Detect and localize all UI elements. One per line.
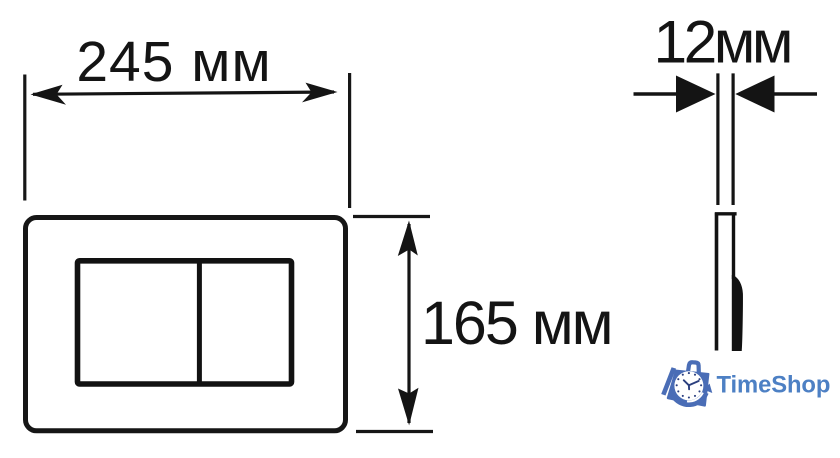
side profile: top edge <box>715 212 737 215</box>
logo: swoosh white gap ring <box>687 393 703 402</box>
dimension 245mm: left extension line <box>23 75 26 201</box>
logo: swoosh arrowhead <box>703 384 712 393</box>
dimension 12mm: left extension line <box>716 73 719 205</box>
logo: clock tick marks <box>676 372 702 399</box>
dimension 12mm: label text <box>654 8 790 76</box>
dimension 165mm: bottom arrowhead <box>398 388 419 426</box>
dimension 245mm: right arrowhead <box>302 83 338 103</box>
dimension 165mm: dimension line <box>407 224 410 423</box>
dimension 165mm: label text <box>421 289 612 357</box>
dimension 165mm: top arrowhead <box>398 221 418 257</box>
dimension 12mm: right leader line <box>771 92 817 95</box>
logo: clock hands <box>684 380 699 389</box>
dimension 245mm: label text <box>76 30 271 94</box>
svg-text:TimeShop: TimeShop <box>717 371 831 398</box>
dimension 12mm: left arrowhead <box>676 76 716 113</box>
logo: clock face <box>674 371 703 400</box>
front view: outer plate outline <box>26 218 346 431</box>
dimension 12mm: right extension line <box>731 73 734 205</box>
logo: swoosh arrow arc <box>673 393 707 405</box>
dimension 12mm: right arrowhead <box>735 76 774 113</box>
logo: bag accent stripe <box>661 367 676 395</box>
side profile: right (front) upper edge <box>732 213 735 280</box>
logo: TimeShop wordmark <box>717 371 831 398</box>
front view: button divider line <box>197 259 202 387</box>
logo: shopping bag body <box>667 370 710 407</box>
dimension 12mm: left leader line <box>634 92 681 95</box>
svg-text:245 мм: 245 мм <box>76 30 271 94</box>
dimension 245mm: left arrowhead <box>31 85 67 105</box>
side profile: protruding button bulge <box>732 275 743 351</box>
dimension 245mm: dimension line <box>33 92 334 94</box>
dimension 245mm: right extension line <box>348 73 351 208</box>
front view: button panel outline <box>78 261 292 384</box>
dimension 165mm: bottom extension line <box>356 430 433 433</box>
dimension 165mm: top extension line <box>353 215 430 218</box>
svg-text:165 мм: 165 мм <box>421 289 612 357</box>
logo: bag handle <box>688 362 699 373</box>
side profile: left (back) edge <box>715 213 719 351</box>
svg-text:12мм: 12мм <box>654 8 790 76</box>
